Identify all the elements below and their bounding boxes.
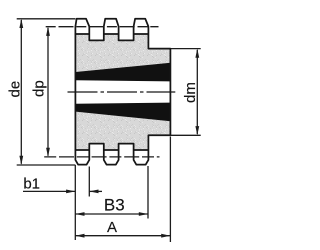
- de arrow down: [19, 156, 23, 165]
- b1 arrow right-pointing: [66, 190, 75, 194]
- sprocket body lower gray section: [75, 112, 170, 150]
- dp dimension line: [47, 28, 49, 156]
- b1 dimension line right part: [89, 190, 102, 192]
- svg-text:b1: b1: [23, 176, 40, 193]
- dm extension line bottom: [171, 134, 201, 136]
- b1 dimension line left part: [23, 190, 75, 192]
- rim root line bottom: [75, 149, 149, 151]
- dm dimension line: [196, 50, 198, 134]
- svg-text:de: de: [7, 81, 24, 98]
- de extension line top: [17, 18, 76, 20]
- B3 right extension line: [147, 166, 149, 219]
- A arrow right: [161, 234, 170, 238]
- dm extension line top: [171, 48, 201, 50]
- A arrow left: [75, 234, 84, 238]
- svg-text:A: A: [107, 219, 117, 236]
- taper bush black wedge lower: [75, 103, 170, 122]
- de dimension line: [20, 20, 22, 164]
- left extension line (body edge produced down): [74, 165, 76, 240]
- b1 arrow left-pointing: [89, 190, 98, 194]
- notch cutout bottom 2-3: [119, 144, 134, 151]
- B3 arrow left: [75, 212, 84, 216]
- notch cutout top 2-3: [119, 33, 134, 40]
- svg-text:dm: dm: [182, 82, 199, 103]
- rim root line top: [75, 33, 149, 35]
- A dimension line: [75, 235, 170, 237]
- dp arrow up: [46, 27, 50, 36]
- de arrow up: [19, 19, 23, 28]
- notch cutout top 1-2: [89, 33, 104, 40]
- dp pitch line bottom (dashed): [44, 156, 159, 158]
- B3 dimension line: [75, 213, 148, 215]
- notch cutout bottom 1-2: [89, 144, 104, 151]
- taper bush black wedge upper: [75, 63, 170, 82]
- svg-text:B3: B3: [104, 196, 125, 215]
- b1 right extension line: [88, 167, 90, 197]
- dp arrow down: [46, 148, 50, 157]
- de extension line bottom: [17, 164, 76, 166]
- center axis line: [68, 91, 176, 93]
- svg-text:dp: dp: [31, 80, 48, 97]
- dp pitch line top (dashed): [46, 26, 159, 28]
- sprocket body upper gray section: [75, 34, 170, 72]
- dm arrow down: [195, 126, 199, 135]
- body outline: [75, 19, 170, 165]
- B3 arrow right: [139, 212, 148, 216]
- dm arrow up: [195, 49, 199, 58]
- A right extension line: [169, 137, 171, 243]
